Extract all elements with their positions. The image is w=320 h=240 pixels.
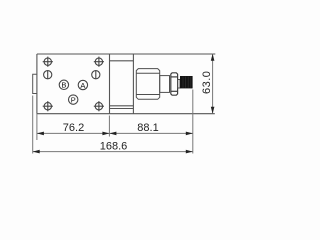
collar	[160, 76, 170, 93]
svg-text:A: A	[80, 81, 85, 90]
extension line plate-left (76.2)	[36, 114, 38, 140]
dimension line 88.1	[109, 132, 192, 134]
bottom edge / extension line for 63.0	[37, 113, 215, 115]
svg-text:P: P	[71, 95, 76, 104]
svg-text:63.0: 63.0	[201, 71, 213, 94]
left tab	[33, 74, 37, 93]
locknut	[171, 73, 178, 95]
extension line right (88.1/168.6)	[192, 90, 194, 154]
port A	[78, 80, 87, 90]
svg-text:88.1: 88.1	[137, 122, 158, 134]
svg-text:76.2: 76.2	[63, 122, 84, 134]
dimension line 168.6	[33, 151, 193, 153]
extension line left (tab, 168.6)	[32, 96, 34, 154]
extension line plate-right (76.2/88.1)	[108, 116, 110, 137]
screw hole bottom-left	[43, 101, 53, 111]
port P	[69, 95, 78, 105]
T port right	[92, 71, 100, 79]
svg-text:B: B	[61, 81, 66, 90]
mounting plate body	[37, 54, 110, 114]
T port left	[44, 71, 52, 79]
knurled adjustment knob	[180, 76, 193, 88]
svg-text:168.6: 168.6	[100, 141, 128, 153]
screw hole top-right	[94, 57, 104, 67]
stem neck	[178, 80, 180, 89]
screw hole bottom-right	[94, 101, 104, 111]
screw hole top-left	[43, 57, 53, 67]
dimension line 63.0	[212, 54, 214, 114]
port B	[59, 80, 68, 89]
dimension line 76.2	[37, 132, 110, 134]
hex cartridge body	[136, 69, 159, 100]
valve body block	[110, 54, 134, 114]
top edge / extension line for 63.0	[37, 53, 215, 55]
